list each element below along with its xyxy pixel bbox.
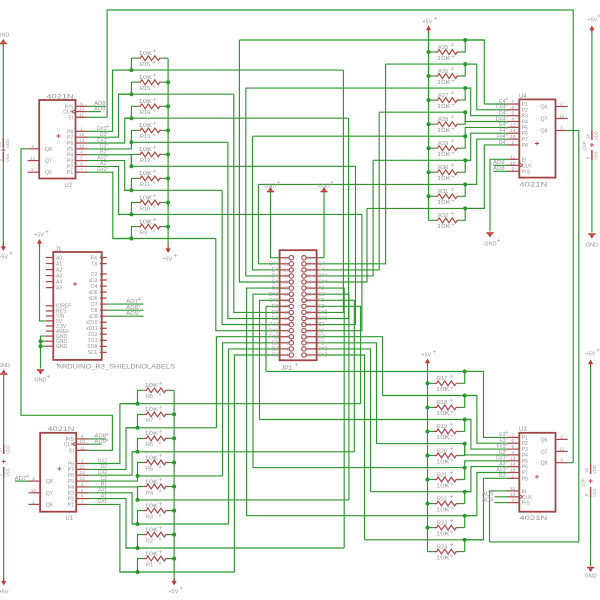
JP1 pin 30 pad <box>306 269 317 271</box>
J1 pin D7 stub <box>100 303 107 305</box>
svg-text:5: 5 <box>286 340 289 345</box>
U2 pin 9 stub <box>76 105 88 107</box>
svg-text:A3: A3 <box>318 286 324 292</box>
U2 pin 6 stub <box>76 165 88 167</box>
wire U1 P6 to R6 feed / net C#2 <box>89 452 138 475</box>
J1 pin GND stub <box>46 335 54 337</box>
svg-text:10K: 10K <box>437 224 451 230</box>
svg-text:10K: 10K <box>145 527 159 533</box>
junction <box>166 176 170 180</box>
ground GND bottom-right <box>587 567 594 569</box>
U3 pin 3 stub <box>556 462 568 464</box>
wire +5V rail top-right column <box>428 32 430 220</box>
resistor R25 10K <box>435 50 460 55</box>
svg-text:6: 6 <box>511 105 514 111</box>
svg-text:13: 13 <box>79 144 85 150</box>
wire R17 right lead to feed <box>459 371 465 383</box>
svg-text:9: 9 <box>511 166 514 172</box>
wire U4 P6 to R30 feed / net F4 <box>465 133 507 160</box>
junction <box>129 237 133 241</box>
wire U2 P2 to R10 feed / net A2 <box>88 166 132 214</box>
power part U2P pin 16 VDD <box>2 138 4 148</box>
wire R15 net drop to JP1 pin 15 <box>234 94 280 312</box>
svg-text:GND: GND <box>586 243 598 249</box>
svg-text:xD3: xD3 <box>89 278 98 284</box>
J1 pin xD10 stub <box>100 321 107 323</box>
wire R31 right lead to feed <box>460 184 465 196</box>
svg-text:16: 16 <box>306 310 312 315</box>
J1 pin A3 stub <box>46 275 54 277</box>
U1 pin 6 stub <box>76 498 88 500</box>
resistor R17 10K <box>434 381 459 386</box>
power part U4P pin 16 VDD <box>591 130 593 140</box>
U2 pin 3 stub <box>28 148 40 150</box>
IC U4 4021N top-right <box>519 99 555 177</box>
svg-text:27: 27 <box>284 274 290 279</box>
svg-text:U4P: U4P <box>582 141 587 150</box>
resistor R15 10K <box>138 80 163 85</box>
wire R13 left lead to feed <box>131 130 137 142</box>
wire R32 left lead to +5V rail <box>429 219 436 221</box>
power part U4P pin 8 VSS <box>591 150 593 160</box>
svg-text:+5V: +5V <box>588 18 598 24</box>
wire +5V rail bottom-right column <box>427 365 429 552</box>
svg-text:21: 21 <box>284 292 290 297</box>
wire R27 net drop to JP1 pin 27 <box>246 88 280 276</box>
wire JP1 pin 1 to R1 net <box>234 355 279 572</box>
junction <box>129 164 133 168</box>
svg-text:A1: A1 <box>56 261 62 267</box>
svg-text:R8: R8 <box>146 394 153 400</box>
junction <box>463 538 467 542</box>
svg-text:A5: A5 <box>56 285 62 291</box>
wire R7 feed line <box>126 427 216 429</box>
svg-text:4021N: 4021N <box>519 516 547 522</box>
U3 pin 13 stub <box>507 460 519 462</box>
svg-text:7: 7 <box>80 167 83 173</box>
svg-text:19: 19 <box>284 298 290 303</box>
wire R26 feed line <box>386 63 477 65</box>
svg-text:Q6: Q6 <box>541 437 548 443</box>
JP1 pin 18 pad <box>306 305 317 307</box>
U4 pin 13 stub <box>507 126 519 128</box>
J1 pin xD9 stub <box>100 315 107 317</box>
junction <box>427 146 431 150</box>
resistor R3 10K <box>144 508 169 513</box>
wire U3 P7 to R23 feed / net A#3 <box>465 473 507 516</box>
wire R19 left lead to +5V rail <box>428 430 435 432</box>
svg-text:10K: 10K <box>145 407 159 413</box>
svg-text:7: 7 <box>81 499 84 505</box>
svg-text:xD10: xD10 <box>86 320 98 326</box>
svg-text:9: 9 <box>80 101 83 107</box>
wire JP1 pin 21 to R21 net <box>253 294 280 467</box>
wire R30 right lead to feed <box>460 160 465 172</box>
svg-text:D4: D4 <box>272 274 279 280</box>
svg-text:D2: D2 <box>272 347 279 353</box>
svg-text:R26: R26 <box>438 69 448 75</box>
junction <box>136 402 140 406</box>
wire R17 left lead to +5V rail <box>428 382 435 384</box>
JP1 pin 10 pad <box>306 330 317 332</box>
svg-text:7: 7 <box>286 334 289 339</box>
svg-text:RX: RX <box>91 255 99 261</box>
J1 pin SCL stub <box>100 351 107 353</box>
wire <box>590 366 592 464</box>
svg-text:GND: GND <box>0 33 9 39</box>
U4 pin 11 stub <box>507 158 519 160</box>
resistor R4 10K <box>144 484 169 489</box>
U3 pin 5 stub <box>507 448 519 450</box>
junction <box>427 194 431 198</box>
junction <box>463 158 467 162</box>
wire R15 left lead to feed <box>131 82 137 94</box>
junction <box>39 339 43 343</box>
svg-text:GND: GND <box>584 574 596 580</box>
junction <box>427 74 431 78</box>
svg-text:4021N: 4021N <box>47 427 74 433</box>
svg-text:22: 22 <box>306 292 312 297</box>
U1 pin 1 stub <box>76 463 88 465</box>
svg-text:G#1: G#1 <box>97 499 107 505</box>
wire <box>3 374 5 444</box>
junction <box>129 68 133 72</box>
junction <box>463 62 467 66</box>
junction <box>426 381 430 385</box>
wire R30 net drop to JP1 pin 28 <box>317 160 374 276</box>
svg-text:TX: TX <box>91 261 98 267</box>
wire U2 P4 to R12 feed / net B2 <box>88 155 132 167</box>
U2 pin 1 stub <box>76 130 88 132</box>
svg-text:U3: U3 <box>519 427 527 433</box>
wire net AD9 from U1 CLK <box>89 443 102 445</box>
svg-text:3: 3 <box>560 458 563 464</box>
wire net AD7 from J1 D7 <box>107 303 144 305</box>
resistor R32 10K <box>435 218 460 223</box>
wire R13 feed line <box>131 141 228 143</box>
svg-text:18: 18 <box>306 304 312 309</box>
wire U4 P2 to R26 feed / net C#4 <box>465 64 507 110</box>
wire U1 P7 to R7 feed / net D2 <box>89 428 138 470</box>
junction <box>166 152 170 156</box>
svg-text:R10: R10 <box>140 206 150 212</box>
wire JP1 pin 5 to R5 net <box>223 343 280 476</box>
wire R32 right lead to feed <box>460 208 465 220</box>
wire R8 left lead to feed <box>138 390 144 403</box>
svg-text:10K: 10K <box>436 435 450 441</box>
wire R22 feed line <box>371 491 471 493</box>
svg-text:C#4: C#4 <box>269 261 278 267</box>
JP1 pin 26 pad <box>306 281 317 283</box>
svg-text:GND: GND <box>484 242 496 248</box>
svg-text:G2: G2 <box>318 334 325 340</box>
wire U4 Q8 to U3 EI <box>490 131 579 542</box>
J1 pin A4 stub <box>46 281 54 283</box>
wire R28 right lead to feed <box>460 112 465 124</box>
wire net AD8 from U2 P/S <box>88 105 106 107</box>
svg-text:10K: 10K <box>436 555 450 561</box>
wire R9 feed line <box>113 238 216 240</box>
J1 pin 5V stub <box>46 320 54 322</box>
U2 pin 13 stub <box>76 148 88 150</box>
wire net AD8 from J1 D8 <box>107 309 144 311</box>
resistor R6 10K <box>144 436 169 441</box>
svg-text:R2: R2 <box>146 538 153 544</box>
svg-text:C2: C2 <box>272 353 279 359</box>
wire U2 EI to top rail <box>88 116 107 118</box>
svg-text:U2: U2 <box>65 183 73 189</box>
wire R27 left lead to +5V rail <box>429 99 436 101</box>
wire U2 P7 to R15 feed / net D3 <box>88 94 132 137</box>
JP1 pin 16 pad <box>306 311 317 313</box>
JP1 pin 23 pad <box>280 287 290 289</box>
wire R5 left lead to feed <box>138 463 144 476</box>
svg-text:AD8: AD8 <box>493 166 505 172</box>
svg-text:10K: 10K <box>436 387 450 393</box>
svg-text:15: 15 <box>80 464 86 470</box>
wire R18 feed line <box>383 395 477 397</box>
wire R24 left lead to +5V rail <box>428 551 435 553</box>
svg-text:E3: E3 <box>318 304 324 310</box>
U4 pin 4 stub <box>507 121 519 123</box>
svg-text:5: 5 <box>511 111 514 117</box>
svg-text:10K: 10K <box>139 51 153 57</box>
svg-text:P8: P8 <box>522 143 528 149</box>
svg-text:10: 10 <box>80 439 86 445</box>
wire R26 net drop to JP1 pin 32 <box>317 64 386 264</box>
ground GND below J1 <box>37 369 44 371</box>
junction <box>463 369 467 373</box>
wire R9 net drop to JP1 pin 9 <box>216 239 280 331</box>
JP1 pin 14 pad <box>306 318 317 320</box>
resistor R8 10K <box>144 388 169 393</box>
svg-text:+5V: +5V <box>422 20 432 26</box>
svg-text:R22: R22 <box>437 496 447 502</box>
svg-text:VDD: VDD <box>592 465 597 474</box>
JP1 pin 17 pad <box>280 305 290 307</box>
JP1 pin 25 pad <box>280 281 290 283</box>
junction <box>463 442 467 446</box>
junction <box>463 418 467 422</box>
junction <box>136 474 140 478</box>
svg-text:31: 31 <box>284 261 290 266</box>
junction <box>129 92 133 96</box>
svg-text:10K: 10K <box>139 171 153 177</box>
svg-text:7: 7 <box>511 432 514 438</box>
U4 pin 14 stub <box>507 132 519 134</box>
wire R19 right lead to feed <box>459 420 465 432</box>
svg-text:12: 12 <box>559 446 565 452</box>
svg-text:ARDUINO_R3_SHIELDNOLABELS: ARDUINO_R3_SHIELDNOLABELS <box>57 363 175 370</box>
wire R10 feed line <box>119 213 362 215</box>
svg-text:J1: J1 <box>55 247 62 253</box>
wire U2 P1 to R9 feed / net G#2 <box>88 172 132 238</box>
wire R24 right lead to feed <box>459 540 465 552</box>
wire J1 5V pin to +5V <box>40 246 46 321</box>
junction <box>136 570 140 574</box>
JP1 pin 29 pad <box>280 269 290 271</box>
svg-text:10: 10 <box>79 107 85 113</box>
resistor R11 10K <box>138 176 163 181</box>
resistor R9 10K <box>138 224 163 229</box>
wire R12 left lead to feed <box>131 154 137 166</box>
wire R16 right lead to +5V rail <box>162 57 168 59</box>
wire R9 right lead to +5V rail <box>162 226 168 228</box>
svg-text:16: 16 <box>0 141 2 147</box>
wire R14 net drop to JP1 pin 14 <box>317 118 349 318</box>
junction <box>136 522 140 526</box>
wire R21 feed line <box>253 467 465 469</box>
JP1 pin 11 pad <box>280 324 290 326</box>
svg-text:P1: P1 <box>68 502 74 508</box>
junction <box>426 454 430 458</box>
JP1 pin 19 pad <box>280 299 290 301</box>
svg-text:10K: 10K <box>437 80 451 86</box>
wire R23 feed line <box>247 515 477 517</box>
svg-text:2: 2 <box>560 102 563 108</box>
wire U3 P8 to R24 feed / net B3 <box>465 478 507 540</box>
U3 pin 14 stub <box>507 466 519 468</box>
junction <box>129 116 133 120</box>
resistor R30 10K <box>435 170 460 175</box>
svg-text:29: 29 <box>284 268 290 273</box>
svg-text:10K: 10K <box>437 176 451 182</box>
wire R31 net drop to JP1 pin 31 <box>258 184 279 263</box>
resistor R12 10K <box>138 152 163 157</box>
svg-text:R15: R15 <box>140 86 150 92</box>
svg-text:13: 13 <box>510 456 516 462</box>
svg-text:16: 16 <box>584 467 589 473</box>
junction <box>172 485 176 489</box>
JP1 pin 9 pad <box>280 330 290 332</box>
svg-text:10K: 10K <box>436 483 450 489</box>
svg-text:R13: R13 <box>140 134 150 140</box>
J1 pin A0 stub <box>46 257 54 259</box>
wire U2 P3 to R11 feed / net A#2 <box>88 161 132 191</box>
JP1 pin 1 pad <box>280 354 290 356</box>
U1 pin 14 stub <box>76 474 88 476</box>
svg-text:15: 15 <box>510 468 516 474</box>
svg-text:D#4: D#4 <box>318 274 327 280</box>
U3 pin 12 stub <box>556 450 568 452</box>
svg-text:B2: B2 <box>318 322 324 328</box>
wire U4 P5 to R29 feed / net E4 <box>465 127 507 136</box>
U4 pin 15 stub <box>507 138 519 140</box>
svg-text:3: 3 <box>286 347 289 352</box>
wire R5 right lead to +5V rail <box>168 462 174 464</box>
svg-text:13: 13 <box>80 476 86 482</box>
U2 pin 4 stub <box>76 154 88 156</box>
J1 pin A2 stub <box>46 269 54 271</box>
wire R12 right lead to +5V rail <box>162 153 168 155</box>
JP1 pin 2 pad <box>306 354 317 356</box>
svg-text:D13: D13 <box>88 338 97 344</box>
supply +5V bottom-left corner <box>1 581 6 586</box>
wire R32 net drop to JP1 pin 26 <box>317 208 367 282</box>
svg-text:6: 6 <box>306 340 309 345</box>
JP1 pin 32 pad <box>306 263 317 265</box>
wire net AD9 from U4 CLK <box>493 164 507 166</box>
svg-text:+5V: +5V <box>168 589 178 595</box>
U4 pin 1 stub <box>507 144 519 146</box>
svg-text:3: 3 <box>32 476 35 482</box>
svg-text:12: 12 <box>306 322 312 327</box>
svg-text:5: 5 <box>81 488 84 494</box>
U1 pin 15 stub <box>76 468 88 470</box>
wire R22 left lead to +5V rail <box>428 503 435 505</box>
wire R12 feed line <box>131 165 355 167</box>
wire U4 P8 to R32 feed / net G4 <box>465 145 507 209</box>
wire R6 right lead to +5V rail <box>168 437 174 439</box>
wire R30 feed line <box>373 159 471 161</box>
svg-text:C#2: C#2 <box>318 353 327 359</box>
wire R1 feed line <box>120 571 234 573</box>
svg-text:U1: U1 <box>65 516 73 522</box>
J1 pin SDA stub <box>100 345 107 347</box>
wire U2 P6 to R14 feed / net C#3 <box>88 118 132 143</box>
JP1 pin 22 pad <box>306 293 317 295</box>
resistor R22 10K <box>434 501 459 506</box>
svg-text:AD9: AD9 <box>94 106 106 112</box>
svg-text:AD7: AD7 <box>126 299 138 305</box>
svg-text:C#4: C#4 <box>318 280 327 286</box>
wire R15 feed line <box>119 93 234 95</box>
svg-text:U4: U4 <box>519 94 527 100</box>
svg-text:EI: EI <box>69 448 74 454</box>
wire <box>2 44 4 139</box>
J1 pin RX stub <box>100 257 107 259</box>
supply +5V below R9 <box>166 248 171 253</box>
svg-text:C4: C4 <box>272 280 279 286</box>
svg-text:+5V: +5V <box>0 255 8 261</box>
wire <box>2 162 4 246</box>
wire U4 P1 to R25 feed / net C4 <box>465 40 507 104</box>
wire U1 P8 to R8 feed / net D#2 <box>89 404 138 464</box>
svg-text:10K: 10K <box>437 152 451 158</box>
resistor R16 10K <box>138 56 163 61</box>
U3 pin 1 stub <box>507 477 519 479</box>
junction <box>427 98 431 102</box>
svg-text:R5: R5 <box>146 466 153 472</box>
junction <box>166 80 170 84</box>
svg-text:17: 17 <box>284 304 290 309</box>
resistor R13 10K <box>138 128 163 133</box>
svg-text:11: 11 <box>79 112 84 118</box>
svg-text:D#3: D#3 <box>269 292 278 298</box>
wire J1 GND pins to GND <box>41 336 46 368</box>
svg-text:11: 11 <box>284 322 289 327</box>
svg-text:AD9: AD9 <box>126 311 138 317</box>
wire U1 P4 to R4 feed / net B1 <box>89 487 138 500</box>
resistor R24 10K <box>434 549 459 554</box>
wire <box>271 192 280 258</box>
J1 pin AREF stub <box>46 330 54 332</box>
wire R1 right lead to +5V rail <box>168 558 174 560</box>
svg-text:1: 1 <box>286 353 289 358</box>
svg-text:14: 14 <box>80 470 86 476</box>
svg-text:14: 14 <box>306 316 312 321</box>
svg-text:13: 13 <box>284 316 290 321</box>
power part U2P pin 8 VSS <box>2 152 4 162</box>
wire EI bus top rail <box>107 10 573 463</box>
junction <box>129 140 133 144</box>
resistor R23 10K <box>434 525 459 530</box>
svg-text:R23: R23 <box>437 520 447 526</box>
svg-text:F2: F2 <box>318 340 324 346</box>
svg-text:14: 14 <box>79 138 85 144</box>
svg-text:E2: E2 <box>272 340 278 346</box>
wire net AD8 from U1 P/S <box>89 438 107 440</box>
